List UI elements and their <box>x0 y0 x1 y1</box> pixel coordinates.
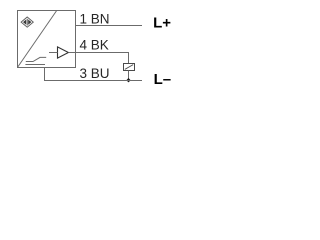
sensor body box <box>18 11 76 68</box>
sensor box diagonal line <box>17 10 56 67</box>
wire 1 BN (to L+) <box>75 25 142 27</box>
wire 3 BU (to L-) <box>45 68 143 81</box>
load to L- wire <box>128 71 130 81</box>
svg-text:1 BN: 1 BN <box>80 12 110 27</box>
wire 4 BK (output) <box>68 53 128 64</box>
switching characteristic symbol (step function) <box>25 57 46 64</box>
svg-text:4 BK: 4 BK <box>80 37 109 52</box>
svg-text:3 BU: 3 BU <box>80 66 110 81</box>
svg-text:L+: L+ <box>153 15 171 32</box>
amplifier triangle <box>58 47 69 58</box>
svg-text:L–: L– <box>154 71 172 88</box>
inductive proximity sensor symbol (diamond) <box>21 17 33 27</box>
amplifier input wire <box>49 52 58 54</box>
load resistor <box>124 64 135 71</box>
junction dot <box>126 78 130 82</box>
